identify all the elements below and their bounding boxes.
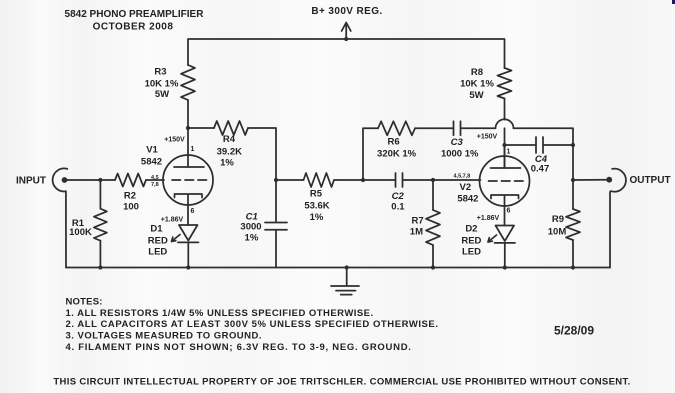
svg-text:OUTPUT: OUTPUT	[629, 175, 670, 186]
node R4/R5/C1	[274, 178, 278, 182]
capacitor C4	[505, 137, 574, 153]
svg-text:R9: R9	[552, 214, 564, 225]
svg-text:1M: 1M	[410, 227, 423, 238]
wire R3 to plate node	[187, 100, 189, 128]
svg-text:1: 1	[507, 149, 511, 156]
output jack J2	[610, 169, 626, 268]
wire input to grid	[65, 179, 116, 181]
V1 grid	[172, 179, 209, 181]
svg-text:R2: R2	[124, 191, 136, 202]
V2 cathode	[491, 195, 519, 226]
wire hop to right vertical	[514, 128, 574, 180]
svg-text:3000: 3000	[240, 222, 261, 233]
B+ supply arrow	[342, 23, 351, 40]
svg-text:INPUT: INPUT	[16, 176, 46, 187]
wire to output jack	[573, 179, 606, 181]
svg-text:V2: V2	[459, 182, 471, 193]
input jack J1	[53, 168, 68, 267]
svg-text:+150V: +150V	[164, 137, 185, 144]
svg-text:3. VOLTAGES MEASURED TO GROUND: 3. VOLTAGES MEASURED TO GROUND.	[66, 331, 262, 342]
svg-text:THIS CIRCUIT INTELLECTUAL PROP: THIS CIRCUIT INTELLECTUAL PROPERTY OF JO…	[53, 377, 630, 388]
svg-text:RED: RED	[148, 236, 168, 247]
resistor R5	[276, 179, 304, 181]
node output	[571, 178, 575, 182]
resistor R1	[99, 180, 101, 209]
ground	[331, 268, 359, 295]
svg-text:10K 1%: 10K 1%	[145, 79, 179, 90]
svg-text:+1.86V: +1.86V	[477, 215, 500, 222]
resistor R7	[432, 180, 434, 210]
svg-text:5W: 5W	[469, 90, 483, 101]
node B+ tap	[344, 37, 348, 41]
svg-text:0.1: 0.1	[391, 202, 405, 213]
diode D2 LED	[495, 226, 516, 268]
wire R8 to hump top	[504, 99, 506, 120]
svg-text:+150V: +150V	[477, 134, 498, 141]
svg-text:0.47: 0.47	[531, 164, 550, 175]
wire R4 to node	[248, 128, 276, 180]
svg-text:4. FILAMENT PINS NOT SHOWN; 6.: 4. FILAMENT PINS NOT SHOWN; 6.3V REG. TO…	[66, 342, 412, 353]
node D1 ground	[186, 265, 190, 269]
wire to V2 grid	[433, 179, 481, 181]
diode D1 LED	[178, 225, 199, 268]
svg-text:RED: RED	[461, 236, 481, 247]
resistor R8	[498, 68, 512, 99]
svg-text:NOTES:: NOTES:	[66, 296, 103, 307]
V1 cathode	[175, 194, 203, 225]
tube V2	[480, 156, 530, 206]
wire top bus	[188, 39, 505, 68]
wire ground bus	[66, 267, 610, 269]
svg-text:53.6K: 53.6K	[304, 201, 329, 212]
capacitor C2	[363, 173, 433, 187]
capacitor C1	[265, 180, 287, 268]
svg-text:4,5,7,8: 4,5,7,8	[454, 174, 471, 180]
svg-text:1000 1%: 1000 1%	[441, 149, 479, 160]
resistor R2	[115, 174, 146, 187]
resistor R6	[378, 121, 415, 135]
svg-text:7,8: 7,8	[151, 182, 159, 188]
svg-text:5842: 5842	[141, 157, 162, 168]
svg-text:D1: D1	[150, 224, 163, 235]
svg-text:B+ 300V REG.: B+ 300V REG.	[311, 6, 382, 17]
capacitor C3	[415, 121, 496, 135]
node B grid V2	[431, 178, 435, 182]
svg-text:6: 6	[507, 208, 511, 215]
svg-text:+1.86V: +1.86V	[161, 217, 184, 224]
svg-text:R7: R7	[412, 216, 424, 227]
wire hump to plate	[504, 128, 506, 168]
svg-text:R6: R6	[388, 137, 400, 148]
V2 grid	[489, 180, 526, 182]
svg-text:320K 1%: 320K 1%	[377, 149, 417, 160]
svg-text:5842 PHONO PREAMPLIFIER: 5842 PHONO PREAMPLIFIER	[65, 9, 205, 20]
svg-text:1: 1	[191, 146, 195, 153]
svg-text:5W: 5W	[155, 89, 169, 100]
svg-text:1%: 1%	[310, 212, 324, 223]
svg-text:10M: 10M	[548, 227, 567, 238]
corner mark	[672, 0, 675, 4]
svg-text:10K 1%: 10K 1%	[460, 79, 494, 90]
node R1 tap	[98, 178, 102, 182]
D2 arrow	[488, 235, 497, 242]
svg-text:C3: C3	[451, 137, 464, 148]
svg-text:C2: C2	[392, 191, 405, 202]
svg-text:100K: 100K	[69, 227, 92, 238]
svg-text:100: 100	[123, 202, 139, 213]
svg-text:R8: R8	[471, 67, 483, 78]
svg-text:5842: 5842	[457, 194, 478, 205]
svg-text:R3: R3	[154, 67, 166, 78]
svg-text:5/28/09: 5/28/09	[554, 324, 594, 338]
node plate V1	[186, 126, 190, 130]
svg-text:1. ALL RESISTORS 1/4W 5% UNLES: 1. ALL RESISTORS 1/4W 5% UNLESS SPECIFIE…	[66, 308, 374, 319]
wire node A up	[363, 128, 378, 180]
svg-text:LED: LED	[148, 247, 167, 258]
svg-text:R5: R5	[310, 189, 323, 200]
svg-text:OCTOBER 2008: OCTOBER 2008	[93, 22, 174, 33]
tube V1	[163, 155, 213, 205]
svg-text:D2: D2	[465, 224, 477, 235]
V1 plate	[174, 128, 204, 167]
svg-text:R4: R4	[223, 134, 236, 145]
svg-text:2. ALL CAPACITORS AT LEAST 300: 2. ALL CAPACITORS AT LEAST 300V 5% UNLES…	[66, 319, 439, 330]
resistor R4	[188, 127, 214, 129]
svg-text:39.2K: 39.2K	[217, 147, 242, 158]
resistor R9	[572, 180, 574, 209]
D1 arrow	[172, 235, 181, 242]
svg-text:1%: 1%	[245, 233, 259, 244]
svg-text:1%: 1%	[220, 158, 234, 169]
svg-text:6: 6	[191, 208, 195, 215]
node A feedback tap	[361, 178, 365, 182]
wire hop over plate	[496, 119, 514, 128]
resistor R3	[181, 65, 195, 100]
svg-text:V1: V1	[146, 145, 158, 156]
svg-text:LED: LED	[462, 247, 481, 258]
node C4 tap	[502, 143, 506, 147]
V2 plate	[491, 145, 521, 168]
